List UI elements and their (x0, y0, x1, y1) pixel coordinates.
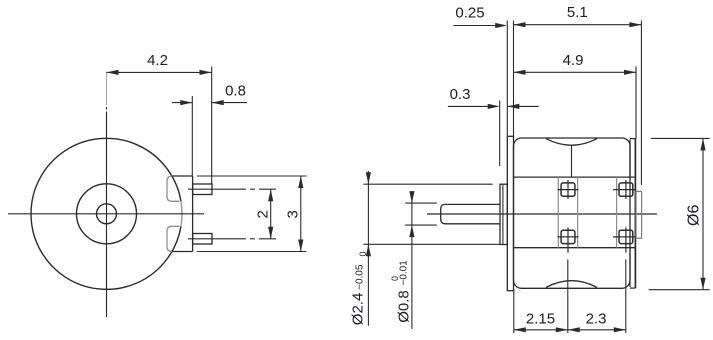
svg-text:−0.05: −0.05 (354, 264, 365, 290)
svg-text:4.9: 4.9 (563, 52, 584, 69)
svg-text:0.8: 0.8 (225, 82, 246, 99)
svg-text:3: 3 (284, 210, 301, 218)
svg-text:4.2: 4.2 (147, 52, 168, 69)
svg-text:Ø0.8: Ø0.8 (395, 290, 412, 323)
svg-text:−0.01: −0.01 (398, 260, 409, 286)
svg-text:0: 0 (358, 251, 368, 256)
svg-text:0: 0 (390, 276, 400, 281)
svg-text:0.25: 0.25 (455, 4, 484, 21)
svg-text:0.3: 0.3 (450, 86, 471, 103)
svg-text:Ø6: Ø6 (685, 205, 702, 226)
svg-text:2.15: 2.15 (526, 311, 555, 328)
svg-text:5.1: 5.1 (567, 4, 588, 21)
svg-text:Ø2.4: Ø2.4 (350, 293, 367, 326)
svg-text:2.3: 2.3 (586, 311, 607, 328)
svg-text:2: 2 (254, 210, 271, 218)
